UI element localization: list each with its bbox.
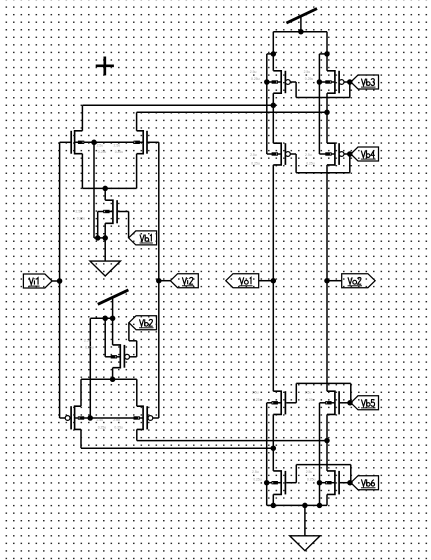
svg-text:0.25u: 0.25u	[305, 77, 314, 81]
svg-text:2.5u: 2.5u	[250, 70, 257, 74]
svg-text:2.5u: 2.5u	[76, 210, 83, 214]
svg-text:0.25u: 0.25u	[253, 477, 262, 481]
svg-text:0.25u: 0.25u	[98, 425, 107, 429]
svg-text:2.5u: 2.5u	[113, 418, 120, 422]
svg-text:2.5u: 2.5u	[306, 470, 313, 474]
svg-text:0.25u: 0.25u	[114, 425, 123, 429]
svg-text:0.25u: 0.25u	[251, 162, 260, 166]
svg-text:2.5u: 2.5u	[250, 153, 257, 157]
svg-text:0.25u: 0.25u	[253, 398, 262, 402]
svg-text:2.5u: 2.5u	[305, 391, 312, 395]
svg-text:2.5u: 2.5u	[252, 391, 259, 395]
svg-text:2.5u: 2.5u	[97, 144, 104, 148]
svg-text:0.25u: 0.25u	[85, 345, 94, 349]
svg-text:0.25u: 0.25u	[251, 77, 260, 81]
svg-text:2.5u: 2.5u	[84, 338, 91, 342]
svg-text:2.5u: 2.5u	[97, 418, 104, 422]
svg-text:0.25u: 0.25u	[307, 477, 316, 481]
svg-text:2.5u: 2.5u	[305, 153, 312, 157]
svg-text:2.5u: 2.5u	[304, 70, 311, 74]
svg-text:0.25u: 0.25u	[98, 150, 107, 154]
svg-text:0.25u: 0.25u	[306, 162, 315, 166]
svg-text:2.5u: 2.5u	[114, 144, 121, 148]
svg-text:0.25u: 0.25u	[306, 398, 315, 402]
svg-text:0.25u: 0.25u	[77, 216, 86, 220]
svg-text:0.25u: 0.25u	[115, 150, 124, 154]
svg-text:2.5u: 2.5u	[252, 470, 259, 474]
